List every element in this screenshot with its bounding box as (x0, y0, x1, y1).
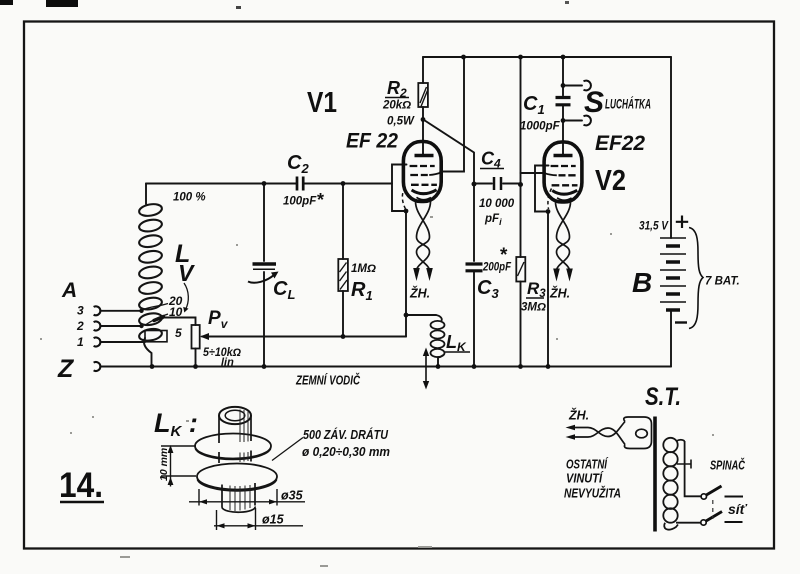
svg-text:31,5 V: 31,5 V (639, 221, 669, 233)
svg-text:200pF: 200pF (482, 262, 512, 274)
svg-text:ø 0,20÷0,30 mm: ø 0,20÷0,30 mm (302, 445, 390, 459)
svg-text:C3: C3 (477, 277, 499, 301)
svg-text:2: 2 (76, 319, 84, 333)
svg-text:1MΩ: 1MΩ (351, 263, 376, 275)
svg-text:VINUTÍ: VINUTÍ (566, 471, 604, 486)
svg-text:10 000: 10 000 (479, 198, 515, 210)
svg-text:S: S (584, 86, 604, 119)
svg-text:R1: R1 (351, 279, 373, 303)
svg-text:ŽH.: ŽH. (409, 286, 430, 301)
svg-text:1000pF: 1000pF (520, 121, 561, 133)
svg-text:pFi: pFi (484, 213, 502, 227)
svg-text:V2: V2 (595, 165, 626, 197)
svg-text:100pF: 100pF (283, 196, 317, 208)
svg-text:SPINAČ: SPINAČ (710, 458, 746, 473)
svg-text:A: A (61, 279, 77, 302)
svg-text:10: 10 (169, 305, 183, 319)
svg-text:1: 1 (77, 335, 84, 349)
svg-text:LUCHÁTKA: LUCHÁTKA (605, 96, 651, 112)
svg-text:Z: Z (57, 355, 75, 383)
svg-text:*: * (317, 190, 324, 210)
svg-text:Pv: Pv (208, 308, 229, 331)
svg-text:LK :: LK : (154, 408, 198, 440)
svg-text:3MΩ: 3MΩ (521, 302, 546, 314)
svg-text:R3: R3 (527, 279, 546, 300)
svg-text:C4: C4 (481, 149, 501, 171)
svg-text:7 BAT.: 7 BAT. (705, 276, 740, 288)
svg-text:EF 22: EF 22 (346, 130, 398, 153)
svg-text:0,5W: 0,5W (387, 116, 415, 128)
svg-text:V: V (178, 260, 195, 286)
svg-text:10 mm: 10 mm (158, 448, 170, 481)
svg-text:ø35: ø35 (281, 489, 304, 503)
svg-text:3: 3 (77, 304, 84, 318)
svg-text:S.T.: S.T. (645, 383, 681, 411)
svg-text:C1: C1 (523, 93, 545, 117)
svg-text:ø15: ø15 (262, 513, 285, 527)
svg-text:ŽH.: ŽH. (549, 286, 570, 301)
svg-text:síť: síť (728, 501, 748, 517)
svg-text:5: 5 (175, 326, 182, 340)
svg-text:LK: LK (446, 332, 467, 354)
svg-text:500 ZÁV. DRÁTU: 500 ZÁV. DRÁTU (303, 427, 389, 442)
svg-text:ŽH.: ŽH. (568, 408, 589, 423)
svg-text:ZEMNÍ VODIČ: ZEMNÍ VODIČ (295, 373, 361, 388)
svg-text:20kΩ: 20kΩ (382, 100, 411, 112)
svg-text:14.: 14. (59, 466, 103, 505)
svg-text:EF22: EF22 (595, 132, 645, 155)
svg-text:lin: lin (221, 357, 234, 369)
svg-text:100 %: 100 % (173, 192, 206, 204)
svg-text:NEVYUŽITA: NEVYUŽITA (564, 486, 621, 501)
svg-text:OSTATNÍ: OSTATNÍ (566, 457, 609, 472)
svg-text:B: B (632, 267, 652, 298)
svg-text:V1: V1 (307, 87, 337, 119)
svg-text:C2: C2 (287, 152, 309, 176)
svg-text:CL: CL (273, 278, 295, 302)
